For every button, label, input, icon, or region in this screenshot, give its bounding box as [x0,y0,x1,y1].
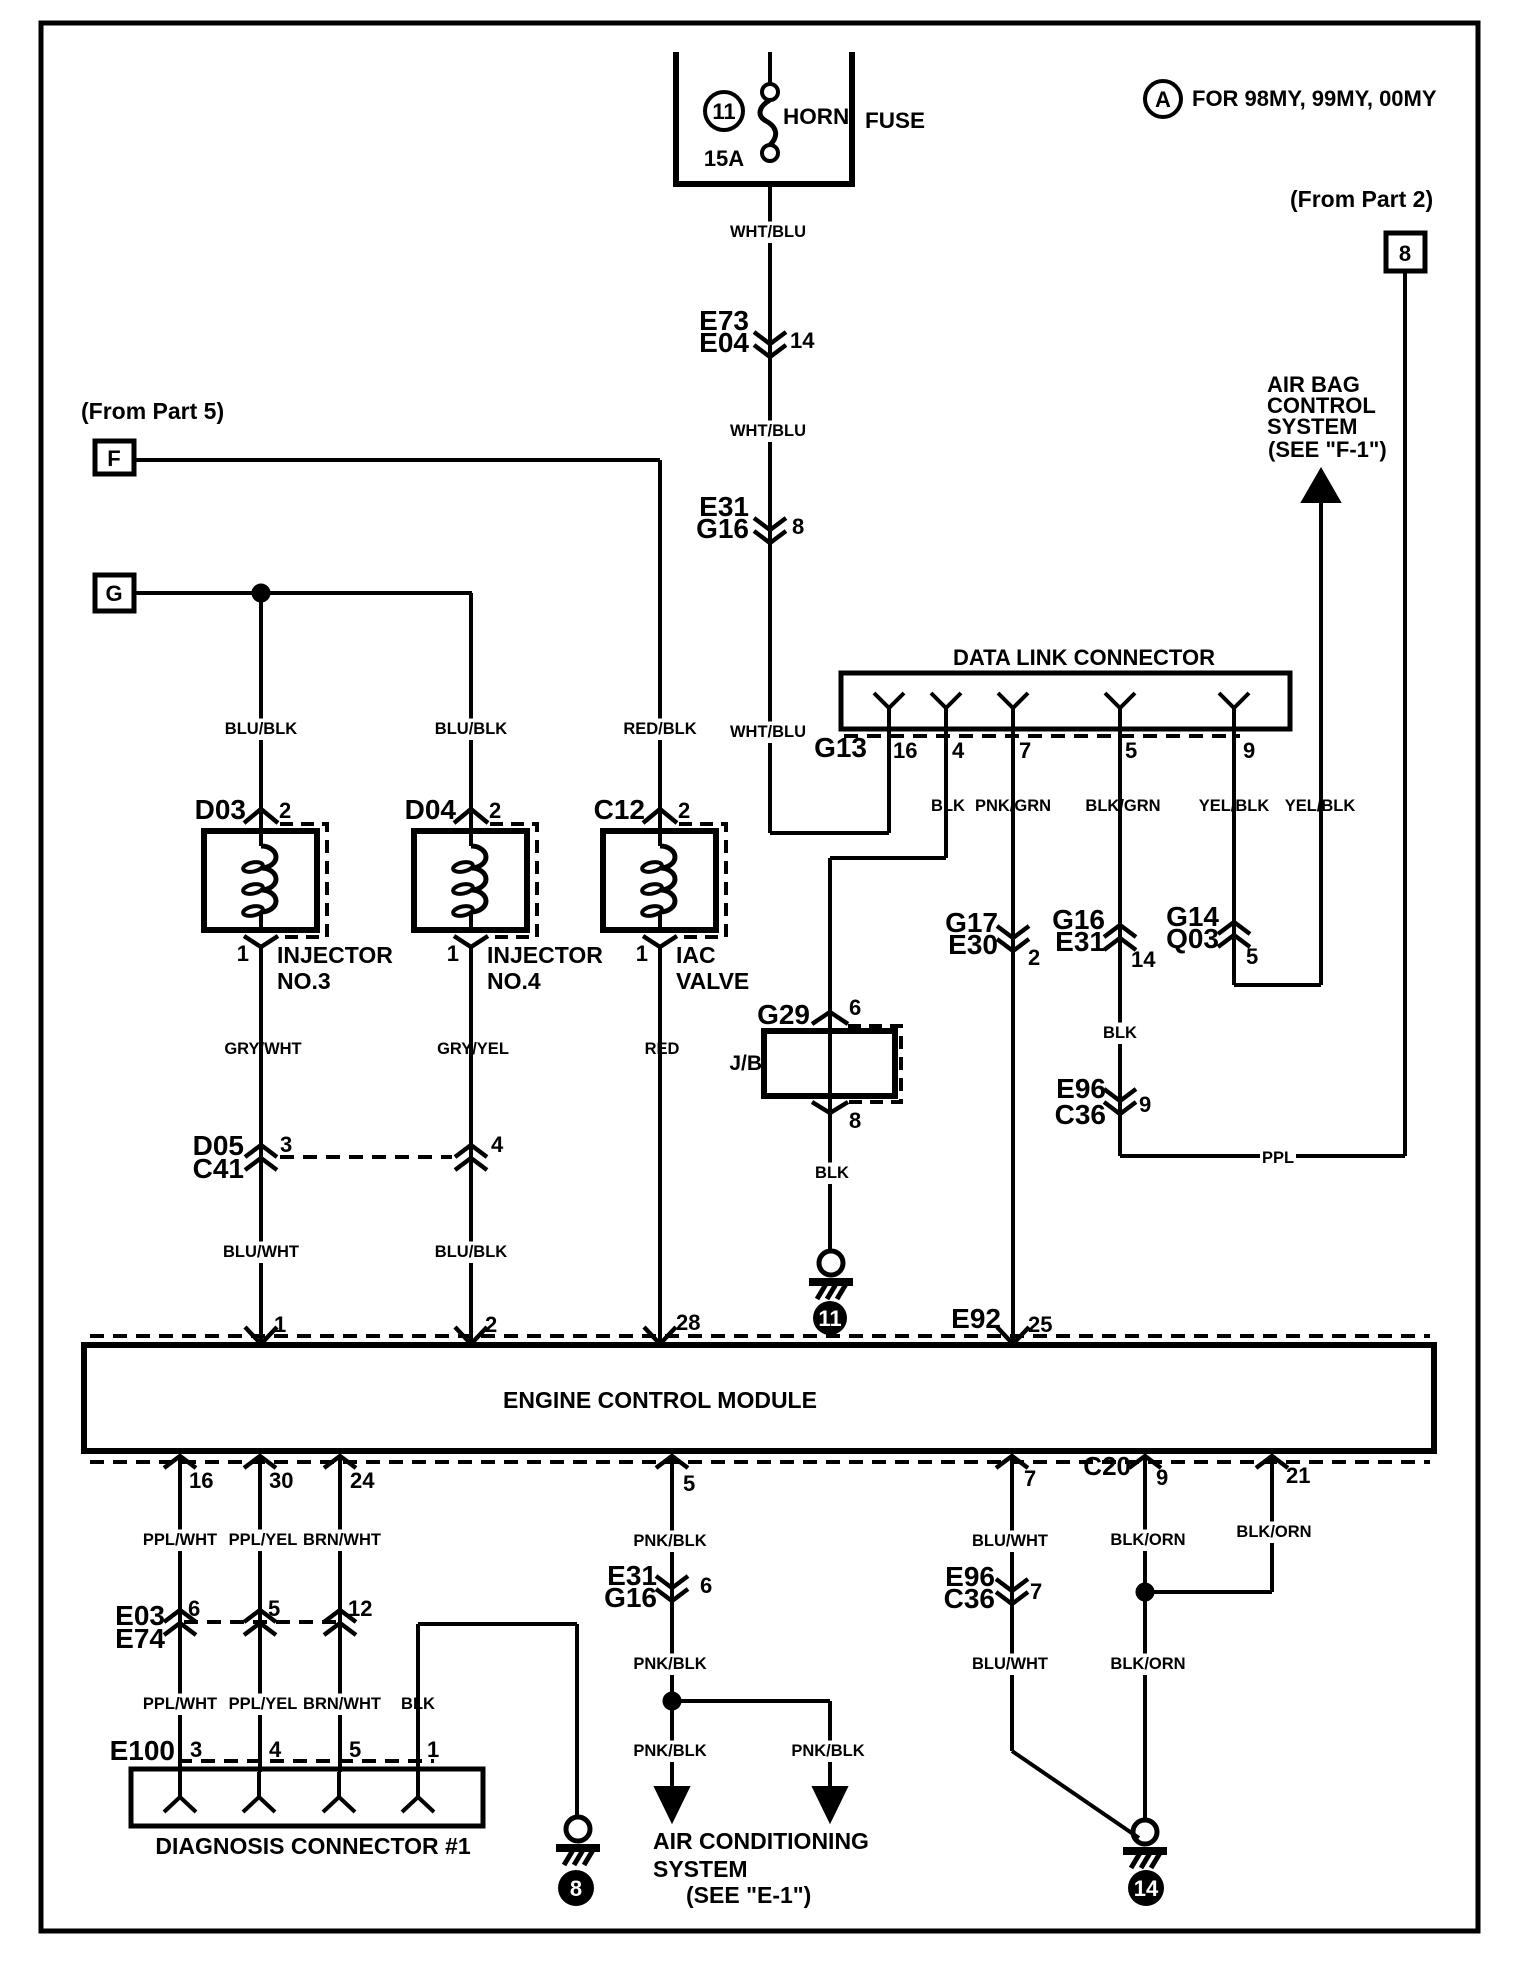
svg-text:4: 4 [491,1132,504,1157]
svg-text:D04: D04 [405,794,457,825]
connector E31/G16 pin 6 (lower) [604,1560,712,1613]
svg-text:BLU/WHT: BLU/WHT [972,1655,1048,1673]
svg-text:HORN: HORN [783,104,849,129]
ECM dashed connector line (top) [90,1334,1430,1338]
junction node on G wire [252,584,270,602]
svg-text:AIR CONDITIONING: AIR CONDITIONING [653,1828,869,1854]
junction node BLK/ORN [1136,1583,1154,1601]
wire BLU/WHT from ECM pin 7 to ground 14 [1012,1456,1139,1838]
wire PPL/WHT (pin 16) [178,1456,182,1772]
injector D04 [405,794,604,994]
svg-text:DIAGNOSIS CONNECTOR #1: DIAGNOSIS CONNECTOR #1 [155,1833,470,1859]
wire label BLU/BLK [225,719,298,741]
wire label WHT/BLU (1) [730,222,806,244]
junction node PNK/BLK [663,1692,681,1710]
wire label PNK/BLK (4) [792,1741,865,1763]
svg-text:RED/BLK: RED/BLK [623,720,696,738]
svg-text:BRN/WHT: BRN/WHT [303,1531,381,1549]
svg-text:30: 30 [269,1468,293,1493]
svg-text:ENGINE CONTROL MODULE: ENGINE CONTROL MODULE [503,1387,817,1413]
svg-text:24: 24 [350,1468,375,1493]
wire label BLK (DLC pin 4) [930,796,966,818]
wire PNK/GRN from DLC pin 7 to ECM pin 25 [1011,729,1015,1345]
wire D03 to ECM pin 1 [259,947,263,1345]
svg-text:SYSTEM: SYSTEM [1267,414,1357,439]
svg-text:(From Part 5): (From Part 5) [81,398,224,424]
wire label WHT/BLU (2) [730,421,806,443]
svg-text:E92: E92 [951,1303,1001,1334]
svg-text:E30: E30 [948,929,998,960]
ECM top pin 2 [455,1312,497,1344]
svg-text:25: 25 [1028,1312,1052,1337]
ground symbol (fuse/DLC circuit) [819,1251,843,1275]
svg-text:FOR 98MY, 99MY, 00MY: FOR 98MY, 99MY, 00MY [1192,86,1437,111]
injector D03 [195,794,394,994]
svg-text:8: 8 [792,514,804,539]
svg-text:4: 4 [952,738,965,763]
connector E73/E04 pin 14 [699,305,815,358]
wire label PPL [1260,1148,1296,1170]
svg-text:4: 4 [269,1737,282,1762]
wire C12 to ECM pin 28 [658,947,662,1345]
wire label BLK/ORN (2) [1112,1654,1185,1676]
svg-text:BRN/WHT: BRN/WHT [303,1695,381,1713]
ECM dashed connector line (bottom) [90,1460,1430,1464]
ECM bottom pin 5 [656,1456,695,1496]
svg-text:(From Part 2): (From Part 2) [1290,186,1433,212]
svg-text:11: 11 [818,1306,841,1331]
wire label GRY/YEL [437,1039,510,1061]
wire label PPL/WHT (2) [144,1694,217,1716]
svg-text:2: 2 [1028,945,1040,970]
connector G17/E30 pin 2 [945,907,1040,970]
wire label BLK/ORN (pin 9) [1112,1530,1185,1552]
DLC dashed connector line [844,734,1240,738]
svg-text:BLU/WHT: BLU/WHT [223,1243,299,1261]
svg-text:11: 11 [712,99,735,124]
svg-text:INJECTOR: INJECTOR [277,942,393,968]
wire label GRY/WHT [227,1039,300,1061]
wire label BLK/ORN (pin 21) [1238,1522,1311,1544]
wire label PPL/YEL [227,1530,300,1552]
svg-text:16: 16 [893,738,917,763]
svg-text:5: 5 [1125,738,1137,763]
wire label YEL/BLK (air bag) [1284,796,1357,818]
svg-text:1: 1 [447,941,459,966]
ECM bottom pin 16 [164,1456,213,1493]
svg-text:BLU/BLK: BLU/BLK [435,1243,507,1261]
svg-text:NO.4: NO.4 [487,968,541,994]
svg-text:IAC: IAC [676,942,716,968]
svg-text:2: 2 [489,798,501,823]
wire label WHT/BLU (3) [730,722,806,744]
svg-text:BLU/BLK: BLU/BLK [435,720,507,738]
wire label RED [644,1039,680,1061]
wire from G to injectors (BLU/BLK) [134,593,472,831]
wire YEL/BLK from DLC pin 9 to air bag system [1234,500,1321,985]
AIR CONDITIONING SYSTEM label [653,1828,869,1908]
svg-text:C36: C36 [944,1583,995,1614]
connector box F (from part 5) [95,441,134,474]
connector E03/E74 pins 6,5,12 [115,1596,372,1654]
svg-text:Q03: Q03 [1166,923,1219,954]
ECM bottom pin 24 [324,1456,375,1493]
wire label BLU/WHT (1) [974,1531,1047,1553]
svg-text:PNK/BLK: PNK/BLK [791,1742,864,1760]
svg-text:PPL/YEL: PPL/YEL [229,1531,298,1549]
svg-text:2: 2 [485,1312,497,1337]
svg-text:BLK/GRN: BLK/GRN [1085,797,1160,815]
ground ref 14 [1128,1870,1164,1906]
svg-text:PNK/BLK: PNK/BLK [633,1655,706,1673]
wire D04 to ECM pin 2 [469,947,473,1345]
ground ref 11 [813,1301,847,1335]
wire label PNK/BLK (2) [634,1654,707,1676]
svg-text:16: 16 [189,1468,213,1493]
wire label BLU/BLK [435,719,508,741]
connector box G (from part 5) [95,575,134,611]
connector E92 pin 25 [951,1303,1052,1337]
svg-text:J/B: J/B [729,1052,762,1075]
injector C12 [594,794,750,994]
svg-text:9: 9 [1243,738,1255,763]
svg-text:INJECTOR: INJECTOR [487,942,603,968]
DLC pin numbers [893,738,1255,763]
svg-text:(SEE "F-1"): (SEE "F-1") [1268,437,1387,462]
svg-text:PPL/WHT: PPL/WHT [143,1695,217,1713]
svg-text:12: 12 [348,1596,372,1621]
svg-text:BLK: BLK [931,797,965,815]
svg-text:3: 3 [190,1737,202,1762]
diagnosis connector #1 box [131,1769,483,1826]
svg-text:G13: G13 [814,732,867,763]
svg-text:D03: D03 [195,794,246,825]
svg-text:E100: E100 [110,1735,175,1766]
wire label BLK (pin 5 wire) [1102,1023,1138,1045]
wire BRN/WHT (pin 24) [338,1456,342,1772]
ECM top pin 28 [644,1310,700,1344]
svg-text:BLK/ORN: BLK/ORN [1110,1531,1185,1549]
svg-text:8: 8 [1399,241,1411,266]
svg-text:5: 5 [349,1737,361,1762]
diagnosis connector pin forks [164,1772,434,1812]
connector E96/C36 pin 7 (lower) [944,1561,1043,1614]
wire WHT/BLU from fuse to DLC pin 16 [770,184,889,833]
arrow to air bag control system [1302,469,1340,502]
connector box 8 (from part 2) [1386,233,1425,271]
wire label YEL/BLK (pin 9) [1198,796,1271,818]
ECM bottom pin 30 [244,1456,293,1493]
svg-text:14: 14 [790,328,815,353]
svg-text:5: 5 [1246,944,1258,969]
svg-text:1: 1 [636,941,648,966]
svg-text:2: 2 [678,798,690,823]
svg-text:(SEE "E-1"): (SEE "E-1") [686,1882,811,1908]
ECM bottom pin 7 [996,1456,1036,1491]
svg-text:3: 3 [280,1132,292,1157]
svg-text:WHT/BLU: WHT/BLU [730,223,806,241]
svg-text:A: A [1155,87,1171,112]
junction block J/B connector G29 pins 6,8 [729,995,901,1133]
wire label PPL/YEL (2) [227,1694,300,1716]
svg-text:RED: RED [645,1040,680,1058]
svg-text:E74: E74 [115,1623,165,1654]
ECM bottom pin 21 [1256,1456,1310,1488]
svg-text:1: 1 [274,1312,286,1337]
svg-text:5: 5 [268,1596,280,1621]
svg-text:WHT/BLU: WHT/BLU [730,723,806,741]
wire label BRN/WHT (2) [306,1694,379,1716]
engine control module ECM box [84,1345,1434,1451]
wire PNK/BLK from ECM pin 5 to A/C system [672,1456,830,1787]
svg-text:G: G [105,581,122,606]
svg-text:C41: C41 [193,1153,244,1184]
wire label RED/BLK [624,719,697,741]
svg-text:BLK/ORN: BLK/ORN [1110,1655,1185,1673]
svg-text:WHT/BLU: WHT/BLU [730,422,806,440]
ECM top pin 1 [245,1312,286,1344]
svg-text:14: 14 [1131,947,1156,972]
wire BLK from DLC pin 4 to J/B G29 and ground 11 [830,729,946,1251]
arrow to A/C system (left) [655,1787,689,1822]
arrow to A/C system (right) [813,1787,847,1822]
data link connector box [841,673,1290,729]
svg-text:C20: C20 [1083,1451,1131,1481]
wire label BLK/GRN [1087,796,1160,818]
svg-text:BLK: BLK [815,1164,849,1182]
svg-text:9: 9 [1139,1092,1151,1117]
wire label BLU/WHT (2) [974,1654,1047,1676]
svg-text:G16: G16 [696,513,749,544]
DLC pin forks [874,693,1249,729]
svg-text:14: 14 [1134,1876,1159,1901]
svg-text:G29: G29 [757,999,810,1030]
wire label PNK/GRN [977,796,1050,818]
svg-text:7: 7 [1024,1466,1036,1491]
connector C20 / ECM bottom pin 9 [1083,1451,1168,1490]
svg-text:1: 1 [427,1737,439,1762]
wire from F to IAC valve (RED/BLK) [134,460,660,831]
svg-text:C12: C12 [594,794,645,825]
wire label BLK (J/B to ground) [814,1163,850,1185]
svg-text:6: 6 [700,1573,712,1598]
svg-text:FUSE: FUSE [865,108,925,133]
wire label PPL/WHT [144,1530,217,1552]
connector E100 pins 3,4,5,1 [110,1735,440,1766]
svg-text:PPL/WHT: PPL/WHT [143,1531,217,1549]
svg-text:G16: G16 [604,1582,657,1613]
svg-text:7: 7 [1019,738,1031,763]
wire label BLU/WHT (injector no.3) [225,1242,298,1264]
ground symbol (sensor ground) [1133,1820,1157,1844]
svg-text:1: 1 [237,941,249,966]
svg-text:7: 7 [1030,1579,1042,1604]
svg-text:NO.3: NO.3 [277,968,331,994]
svg-text:PNK/BLK: PNK/BLK [633,1742,706,1760]
svg-text:9: 9 [1156,1465,1168,1490]
svg-text:21: 21 [1286,1463,1310,1488]
svg-text:C36: C36 [1055,1099,1106,1130]
wire BLK/GRN / PPL from DLC pin 5 [1118,729,1122,1156]
svg-text:E04: E04 [699,327,749,358]
svg-text:BLU/BLK: BLU/BLK [225,720,297,738]
ECM top pin 25 (E92) [997,1327,1029,1344]
wire label PNK/BLK (3) [634,1741,707,1763]
wire label PNK/BLK (1) [634,1531,707,1553]
svg-text:28: 28 [676,1310,700,1335]
connector E96/C36 pin 9 (upper) [1055,1073,1152,1130]
wire BLK from ground 8 to diagnosis pin 1 [418,1624,577,1817]
svg-text:PPL/YEL: PPL/YEL [229,1695,298,1713]
svg-text:VALVE: VALVE [676,968,749,994]
svg-text:15A: 15A [704,146,744,171]
svg-text:8: 8 [849,1108,861,1133]
svg-text:SYSTEM: SYSTEM [653,1856,748,1882]
wire BLK/ORN from ECM pins 9,21 to ground 14 [1145,1456,1272,1820]
svg-text:BLK: BLK [1103,1024,1137,1042]
fuse F11 HORN 15A (fuse box) [676,52,925,184]
svg-text:2: 2 [279,798,291,823]
ground symbol (diagnosis circuit) [566,1817,590,1841]
wire label BLU/BLK (injector no.4) [435,1242,508,1264]
wire PPL/YEL (pin 30) [258,1456,262,1772]
connector G14/Q03 pin 5 [1166,901,1258,969]
svg-text:E31: E31 [1055,926,1105,957]
connector G16/E31 pin 14 [1052,904,1156,972]
svg-text:BLK/ORN: BLK/ORN [1236,1523,1311,1541]
connector E31/G16 pin 8 (upper) [696,491,804,544]
wire PPL from box 8 to E96/C36 [1120,271,1405,1156]
note A: FOR 98MY, 99MY, 00MY [1145,81,1437,117]
svg-text:PNK/BLK: PNK/BLK [633,1532,706,1550]
svg-text:6: 6 [188,1596,200,1621]
svg-text:6: 6 [849,995,861,1020]
svg-text:BLU/WHT: BLU/WHT [972,1532,1048,1550]
wire label BLK (diagnosis) [400,1694,436,1716]
ground ref 8 [558,1870,594,1906]
AIR BAG CONTROL SYSTEM label [1267,372,1387,462]
svg-text:F: F [107,446,120,471]
svg-text:5: 5 [683,1471,695,1496]
svg-text:PPL: PPL [1262,1149,1294,1167]
svg-text:DATA LINK CONNECTOR: DATA LINK CONNECTOR [953,645,1215,670]
wire label BRN/WHT [306,1530,379,1552]
connector D05/C41 pins 3,4 [193,1130,504,1184]
svg-text:8: 8 [570,1876,582,1901]
